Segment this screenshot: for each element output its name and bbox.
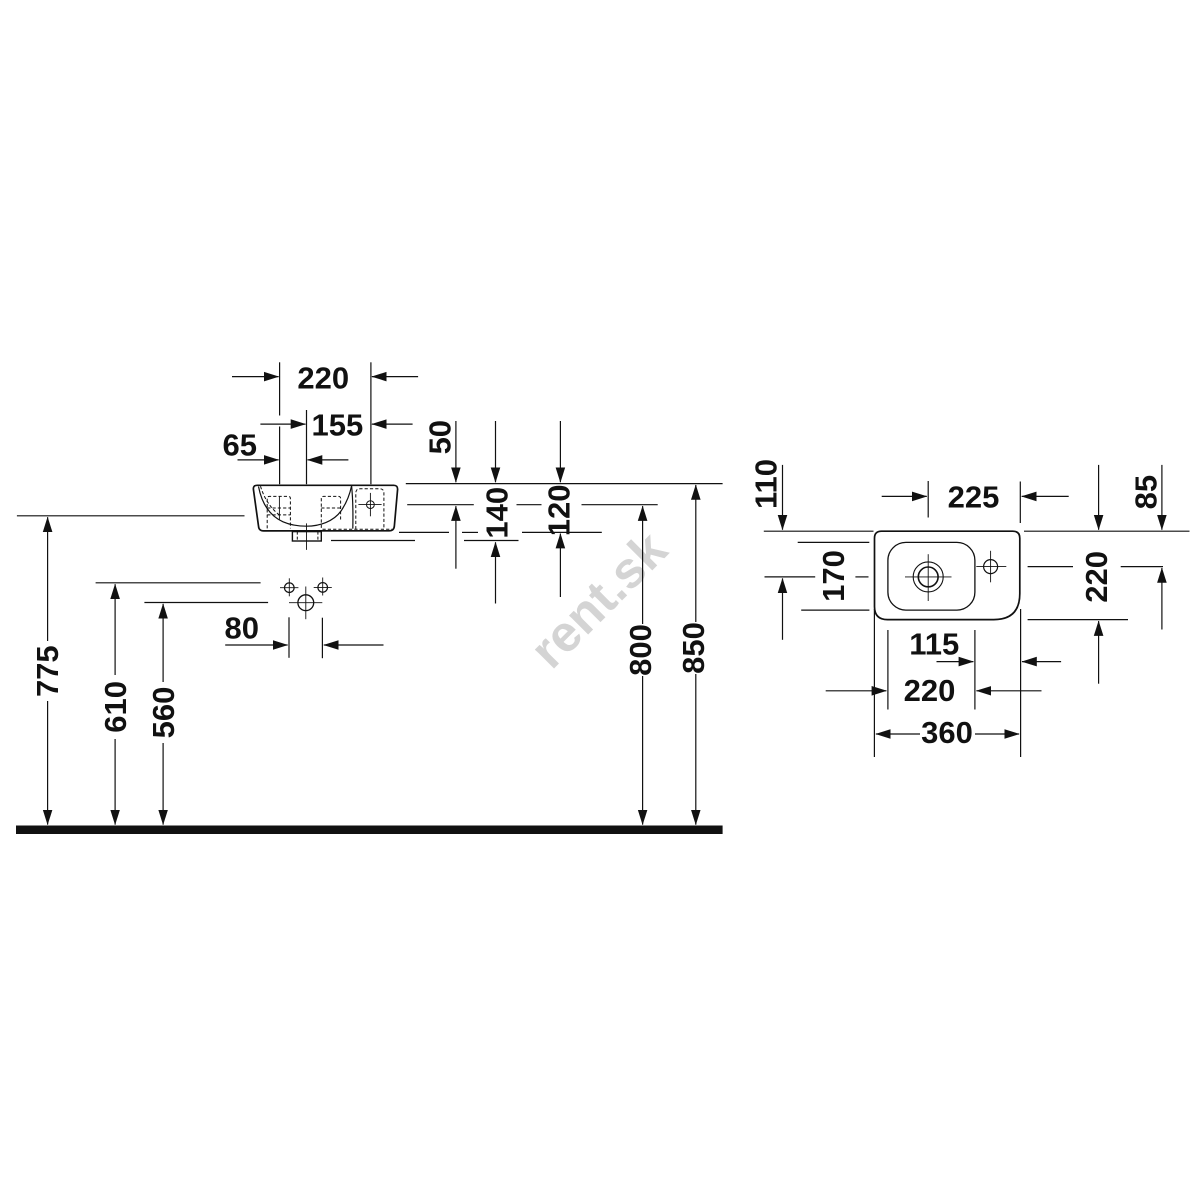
svg-text:800: 800 (623, 624, 658, 676)
svg-text:170: 170 (816, 550, 851, 602)
svg-text:115: 115 (909, 626, 959, 661)
svg-text:360: 360 (921, 715, 973, 750)
svg-text:220: 220 (297, 361, 349, 396)
svg-text:220: 220 (904, 673, 956, 708)
svg-text:50: 50 (422, 420, 457, 454)
svg-text:850: 850 (676, 622, 711, 674)
svg-text:110: 110 (749, 459, 784, 509)
svg-text:220: 220 (1079, 551, 1114, 603)
svg-text:85: 85 (1128, 475, 1163, 509)
svg-text:225: 225 (948, 479, 1000, 514)
svg-text:155: 155 (312, 407, 364, 442)
svg-text:140: 140 (480, 487, 515, 539)
svg-text:80: 80 (225, 611, 259, 646)
svg-text:65: 65 (223, 428, 257, 463)
svg-text:610: 610 (98, 681, 133, 733)
svg-text:560: 560 (146, 687, 181, 739)
svg-text:120: 120 (542, 485, 577, 537)
svg-text:775: 775 (30, 645, 65, 697)
